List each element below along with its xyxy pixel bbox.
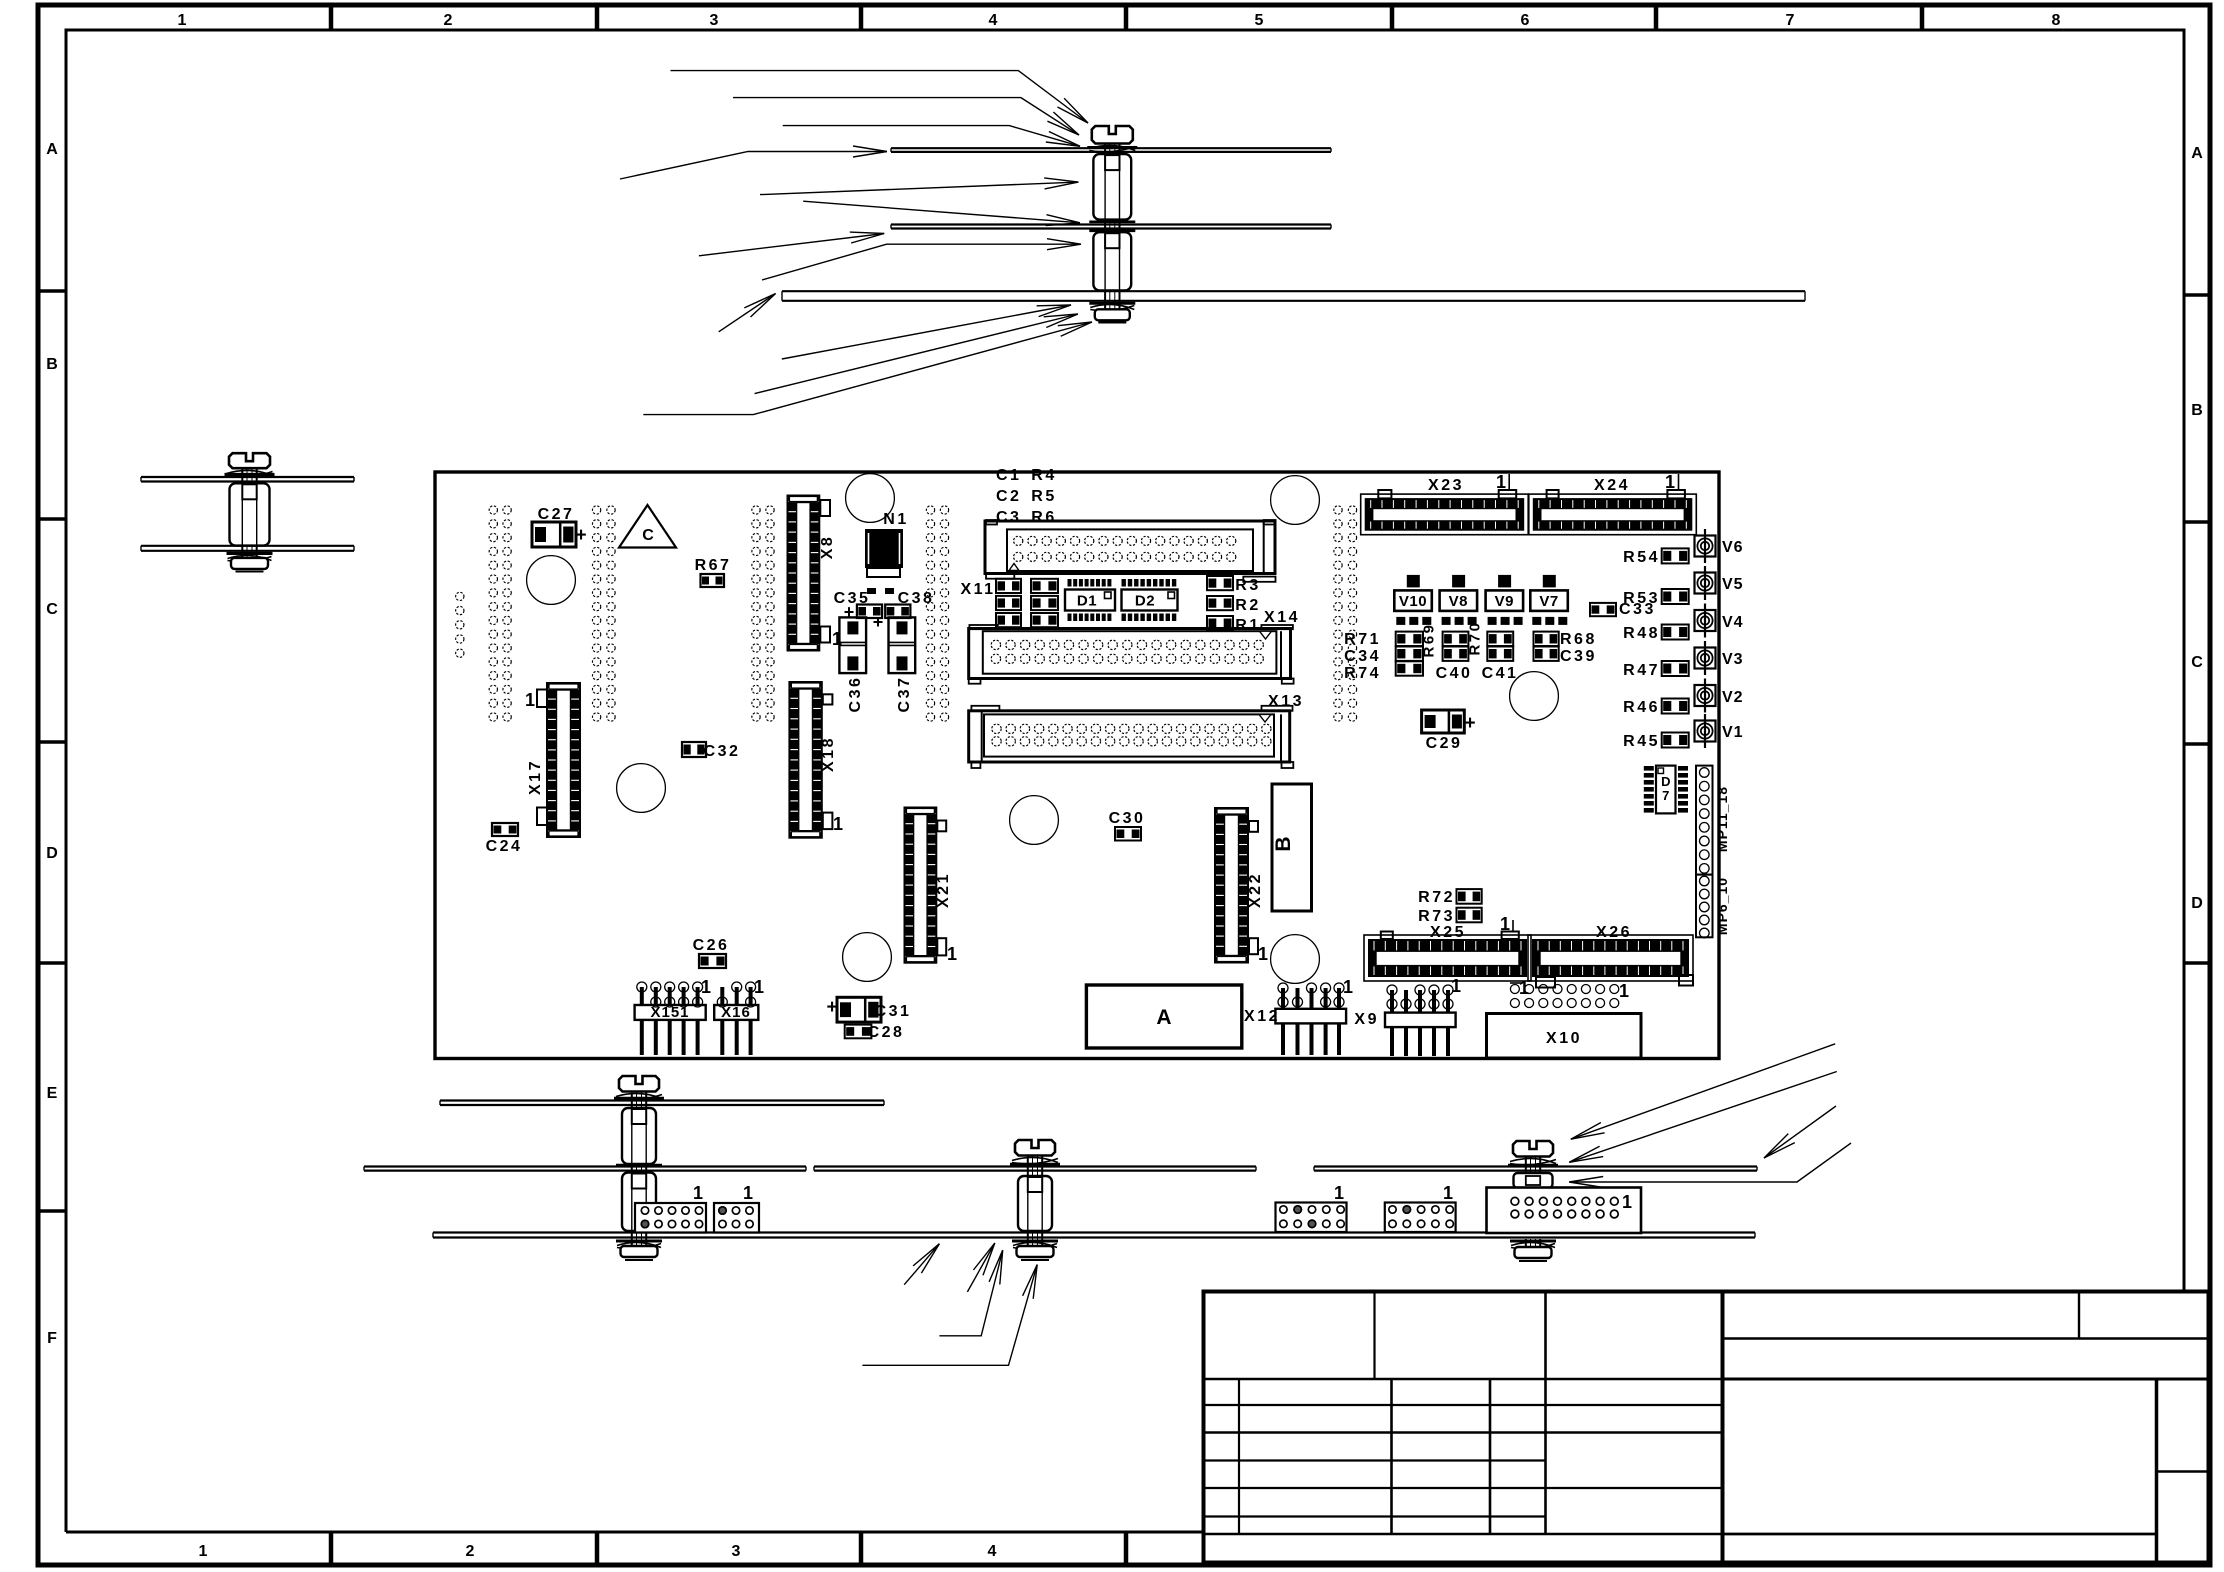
- title block outer box: [1204, 1292, 2209, 1563]
- svg-text:R73: R73: [1418, 908, 1455, 925]
- capacitor C29: [1422, 710, 1465, 733]
- leader arrow to flat washer of M1: [783, 126, 1080, 147]
- svg-text:C24: C24: [486, 838, 523, 855]
- resistor R2: [1207, 596, 1233, 610]
- resistor R68: [1534, 632, 1559, 646]
- block X10: [1487, 1014, 1642, 1059]
- svg-text:R53: R53: [1623, 590, 1660, 607]
- svg-text:B: B: [46, 356, 58, 373]
- svg-text:1: 1: [1443, 1183, 1453, 1203]
- connector X21: [904, 807, 938, 964]
- svg-text:C32: C32: [704, 743, 741, 760]
- title block right section lines: [2078, 1292, 2080, 1339]
- svg-text:7: 7: [1786, 12, 1795, 29]
- svg-text:C26: C26: [693, 937, 730, 954]
- svg-text:X151: X151: [650, 1004, 689, 1021]
- svg-text:R68: R68: [1560, 631, 1597, 648]
- svg-text:E: E: [47, 1085, 58, 1102]
- top side view spring washer above nut: [1089, 302, 1135, 305]
- diode V9: [1498, 575, 1511, 588]
- capacitor C28: [845, 1025, 872, 1039]
- svg-text:2: 2: [466, 1543, 475, 1560]
- svg-text:1: 1: [947, 944, 957, 964]
- svg-text:C: C: [642, 527, 654, 544]
- bottom view screw M5: [1513, 1141, 1553, 1157]
- svg-text:R5: R5: [1031, 488, 1056, 505]
- svg-text:R2: R2: [1235, 597, 1260, 614]
- pin header X16: [714, 1005, 758, 1020]
- svg-text:C1: C1: [996, 467, 1021, 484]
- svg-text:X23: X23: [1428, 477, 1464, 494]
- svg-text:4: 4: [988, 1543, 997, 1560]
- leader arrow to washer above nut of M1: [782, 305, 1071, 359]
- svg-text:MP11_18: MP11_18: [1714, 786, 1730, 852]
- top side view board 1 cross-section: [891, 147, 1331, 149]
- svg-text:A: A: [1156, 1006, 1171, 1029]
- leader arrow to middle board right end: [1764, 1106, 1836, 1158]
- mounting hole bottom-center: [1271, 935, 1320, 984]
- svg-text:1: 1: [701, 977, 711, 997]
- bottom side view middle board segment 3: [1314, 1165, 1757, 1167]
- top side view spring washer under screw M1: [1089, 145, 1135, 150]
- svg-text:C36: C36: [847, 676, 864, 713]
- bottom side view top board cross-section: [440, 1099, 884, 1101]
- bottom side view middle board segment 2: [814, 1165, 1256, 1167]
- leader arrow to standoff 2: [762, 244, 1081, 280]
- leader arrow to screw M5 head: [1571, 1044, 1835, 1139]
- svg-text:C31: C31: [875, 1003, 912, 1020]
- svg-text:+: +: [1464, 713, 1475, 734]
- leader arrow to spring washer at nut of M1: [643, 322, 1092, 415]
- leader arrow to washer of M4: [967, 1243, 994, 1292]
- svg-text:1: 1: [833, 814, 843, 834]
- svg-text:1: 1: [1343, 977, 1353, 997]
- bottom side view bottom board cross-section: [433, 1231, 1755, 1233]
- svg-text:5: 5: [1255, 12, 1264, 29]
- connector block K3 on bottom board: [1276, 1203, 1347, 1233]
- svg-text:1: 1: [754, 977, 764, 997]
- mounting hole middle-left: [617, 764, 666, 813]
- via array strip 1: [489, 506, 497, 514]
- capacitor C24: [492, 823, 518, 836]
- svg-text:1: 1: [743, 1183, 753, 1203]
- washer M4 below bottom board: [1012, 1240, 1058, 1243]
- via array strip 3: [752, 506, 760, 514]
- svg-text:1: 1: [1451, 976, 1461, 996]
- svg-text:+: +: [873, 612, 884, 632]
- leader arrow to washer above board 2: [803, 201, 1080, 223]
- svg-text:6: 6: [1521, 12, 1530, 29]
- leader arrow to spring washer of M1: [733, 98, 1079, 135]
- svg-text:R74: R74: [1344, 665, 1381, 682]
- svg-text:D: D: [2191, 895, 2203, 912]
- svg-text:R6: R6: [1031, 509, 1056, 526]
- svg-text:R3: R3: [1235, 577, 1260, 594]
- standoff 2 of M3: [622, 1173, 656, 1232]
- block A: [1086, 985, 1241, 1048]
- marking triangle C: [619, 505, 676, 548]
- left side view board 1 cross-section: [141, 476, 354, 478]
- top side view board 2 cross-section: [891, 223, 1331, 225]
- svg-text:R69: R69: [1421, 622, 1438, 657]
- svg-text:X10: X10: [1546, 1030, 1582, 1047]
- nut of M3: [621, 1246, 658, 1257]
- diode V2: [1704, 679, 1706, 713]
- svg-text:D: D: [46, 845, 58, 862]
- via single column: [456, 592, 464, 600]
- svg-text:X21: X21: [935, 872, 952, 908]
- washer M3 below bottom board: [616, 1240, 662, 1243]
- svg-text:X14: X14: [1264, 609, 1300, 626]
- svg-text:D: D: [1661, 774, 1670, 789]
- resistor R1: [1207, 616, 1233, 630]
- left side view washer below board 2 of M2: [227, 552, 273, 555]
- svg-text:1: 1: [1334, 1183, 1344, 1203]
- svg-text:R48: R48: [1623, 625, 1660, 642]
- leader arrow to standoff 1: [760, 182, 1078, 195]
- bottom zone band dividers: [329, 1532, 334, 1565]
- mounting hole top-middle-right: [1271, 476, 1320, 525]
- capacitor C33: [1590, 603, 1616, 616]
- capacitor C32: [682, 742, 706, 757]
- svg-text:C41: C41: [1482, 665, 1519, 682]
- svg-text:4: 4: [989, 12, 998, 29]
- IC D2: [1122, 579, 1126, 587]
- diode V6: [1704, 529, 1706, 563]
- leader arrow to washer bushing of M5: [1569, 1143, 1851, 1182]
- svg-text:D2: D2: [1135, 593, 1155, 610]
- leader arrow to screw M1 head: [671, 71, 1089, 123]
- left side view standoff: [230, 483, 270, 545]
- top side view standoff 1: [1093, 154, 1131, 220]
- svg-text:C30: C30: [1109, 810, 1146, 827]
- svg-text:R4: R4: [1031, 467, 1056, 484]
- svg-text:D1: D1: [1077, 593, 1097, 610]
- pin header X151: [635, 1005, 706, 1020]
- bottom view screw M4: [1015, 1140, 1055, 1156]
- spring washer of M4: [1012, 1157, 1058, 1162]
- svg-text:V10: V10: [1399, 593, 1427, 610]
- via array strip 4: [926, 506, 934, 514]
- svg-text:1: 1: [1258, 944, 1268, 964]
- pad field below X26: [1510, 985, 1519, 994]
- capacitor C37: [889, 617, 916, 673]
- svg-text:X18: X18: [820, 736, 837, 772]
- svg-text:V5: V5: [1722, 576, 1744, 593]
- svg-text:C27: C27: [538, 506, 575, 523]
- IC D1: [1068, 579, 1072, 587]
- svg-text:R47: R47: [1623, 662, 1660, 679]
- svg-text:X13: X13: [1268, 693, 1304, 710]
- leader arrow to nut of M4: [862, 1265, 1037, 1366]
- standoff of M4: [1018, 1176, 1052, 1231]
- standoff 1 of M3: [622, 1108, 656, 1164]
- connector X22: [1214, 807, 1249, 964]
- svg-text:X24: X24: [1594, 477, 1630, 494]
- svg-text:8: 8: [2052, 12, 2061, 29]
- svg-text:R72: R72: [1418, 889, 1455, 906]
- svg-text:A: A: [46, 141, 58, 158]
- connector block K4 on bottom board: [1385, 1203, 1456, 1233]
- svg-text:C2: C2: [996, 488, 1021, 505]
- svg-text:X9: X9: [1354, 1011, 1379, 1028]
- contact strip MP11_18: [1696, 766, 1713, 875]
- svg-text:V1: V1: [1722, 724, 1744, 741]
- svg-text:V6: V6: [1722, 539, 1744, 556]
- washer M3 above middle board: [616, 1164, 662, 1167]
- svg-text:X8: X8: [819, 535, 836, 560]
- top side view nut of screw M1: [1095, 309, 1130, 320]
- svg-text:1: 1: [1622, 1192, 1632, 1212]
- bottom view screw M3: [619, 1076, 659, 1092]
- svg-text:V2: V2: [1722, 689, 1744, 706]
- via array strip 2: [592, 506, 600, 514]
- diode V1: [1704, 714, 1706, 748]
- svg-text:V8: V8: [1449, 593, 1468, 610]
- svg-text:A: A: [2191, 145, 2203, 162]
- capacitor C36: [839, 617, 866, 673]
- mounting hole upper-left: [527, 556, 576, 605]
- svg-text:1: 1: [1519, 978, 1529, 998]
- top zone band dividers: [329, 5, 334, 30]
- diode V10: [1407, 575, 1420, 588]
- capacitor C40: [1443, 647, 1469, 661]
- mounting hole top-middle-left: [846, 474, 895, 523]
- mounting hole right: [1510, 672, 1559, 721]
- svg-text:X17: X17: [527, 759, 544, 795]
- top side view washer below board 2: [1089, 230, 1135, 233]
- svg-text:C: C: [46, 601, 58, 618]
- svg-text:R46: R46: [1623, 699, 1660, 716]
- resistor R3: [1207, 576, 1233, 590]
- connector block K2 on bottom board: [714, 1203, 759, 1233]
- svg-text:V3: V3: [1722, 651, 1744, 668]
- svg-text:R67: R67: [695, 557, 732, 574]
- via array strip 5: [1334, 506, 1342, 514]
- svg-text:C3: C3: [996, 509, 1021, 526]
- capacitor C41: [1487, 647, 1513, 661]
- title block left section lines: [1204, 1378, 1723, 1381]
- connector block K5 on bottom board: [1487, 1188, 1642, 1234]
- leader arrow to spring washer of M5: [1569, 1072, 1837, 1163]
- leader arrow to spring washer of M4: [939, 1250, 1002, 1336]
- svg-text:3: 3: [710, 12, 719, 29]
- left side view screw M2 head: [229, 453, 270, 468]
- svg-text:X11: X11: [960, 581, 995, 598]
- svg-text:1: 1: [525, 690, 535, 710]
- mounting hole bottom-left: [843, 933, 892, 982]
- washer bushing of M5: [1514, 1173, 1553, 1188]
- svg-text:B: B: [1272, 836, 1295, 851]
- leader arrow to board 2 edge: [699, 234, 884, 256]
- svg-text:C28: C28: [868, 1024, 905, 1041]
- svg-text:1: 1: [1496, 472, 1506, 492]
- svg-text:R45: R45: [1623, 733, 1660, 750]
- svg-text:F: F: [47, 1330, 57, 1347]
- connector X17: [546, 682, 581, 838]
- svg-text:2: 2: [444, 12, 453, 29]
- svg-text:7: 7: [1662, 788, 1669, 803]
- top side view standoff 2: [1093, 232, 1131, 290]
- svg-text:C29: C29: [1426, 735, 1463, 752]
- svg-text:1: 1: [1500, 914, 1510, 934]
- svg-text:R71: R71: [1344, 631, 1381, 648]
- connector X18: [788, 681, 822, 839]
- screw M5 shaft below bottom board: [1525, 1239, 1527, 1258]
- svg-text:1: 1: [1665, 472, 1675, 492]
- top side view screw M1: [1092, 126, 1133, 144]
- svg-text:X22: X22: [1247, 872, 1264, 908]
- diode V4: [1704, 604, 1706, 638]
- svg-text:R54: R54: [1623, 549, 1660, 566]
- diode V8: [1452, 575, 1465, 588]
- svg-text:1: 1: [199, 1543, 208, 1560]
- svg-text:3: 3: [732, 1543, 741, 1560]
- svg-text:V7: V7: [1539, 593, 1558, 610]
- svg-text:C39: C39: [1560, 648, 1597, 665]
- svg-text:B: B: [2191, 402, 2203, 419]
- left side view nut of M2: [231, 558, 268, 569]
- title block main vertical divider: [1721, 1292, 1725, 1563]
- diode V7: [1543, 575, 1556, 588]
- top side view washer above board 2: [1089, 221, 1135, 224]
- svg-text:X26: X26: [1596, 924, 1632, 941]
- svg-text:C: C: [2191, 654, 2203, 671]
- svg-text:C34: C34: [1344, 648, 1381, 665]
- svg-text:C37: C37: [896, 676, 913, 713]
- leader arrow to bottom board: [904, 1244, 939, 1285]
- left side view spring washer of M2: [227, 470, 273, 475]
- svg-text:V9: V9: [1495, 593, 1514, 610]
- leader arrow to board 1 edge: [620, 152, 887, 180]
- leader arrow to board 3 edge: [719, 294, 776, 332]
- svg-text:1: 1: [693, 1183, 703, 1203]
- svg-text:V4: V4: [1722, 614, 1744, 631]
- nut of M5: [1515, 1247, 1552, 1258]
- contact strip MP6_10: [1696, 875, 1713, 938]
- mounting hole center: [1010, 796, 1059, 845]
- washer M5 below bottom board: [1510, 1240, 1556, 1243]
- diode V3: [1704, 641, 1706, 675]
- svg-text:+: +: [844, 602, 855, 622]
- svg-text:1: 1: [1619, 981, 1629, 1001]
- leader arrow to nut of M1: [755, 314, 1078, 394]
- connector above X11 (IDC): [986, 520, 997, 525]
- svg-text:X16: X16: [721, 1004, 751, 1021]
- svg-text:X25: X25: [1430, 924, 1466, 941]
- IC D7: [1644, 766, 1654, 771]
- connector block K1 on bottom board: [635, 1203, 706, 1233]
- spring washer of M3: [616, 1093, 662, 1098]
- svg-text:+: +: [575, 525, 586, 546]
- capacitor C39: [1534, 647, 1559, 661]
- svg-text:N1: N1: [883, 511, 908, 528]
- top side view board 3 cross-section: [782, 290, 1805, 292]
- svg-text:R70: R70: [1467, 620, 1484, 655]
- nut of M4: [1017, 1246, 1054, 1257]
- right zone band dividers: [2184, 293, 2210, 297]
- left side view board 2 cross-section: [141, 545, 354, 547]
- svg-text:1: 1: [178, 12, 187, 29]
- spring washer of M5: [1510, 1158, 1556, 1163]
- left zone band dividers: [38, 289, 66, 293]
- PCB board outline: [435, 472, 1719, 1059]
- block B: [1272, 784, 1312, 911]
- connector X8: [787, 495, 821, 652]
- diode V5: [1704, 566, 1706, 600]
- svg-text:MP6_10: MP6_10: [1714, 877, 1730, 935]
- svg-text:C40: C40: [1436, 665, 1473, 682]
- bottom side view middle board segment 1: [364, 1165, 806, 1167]
